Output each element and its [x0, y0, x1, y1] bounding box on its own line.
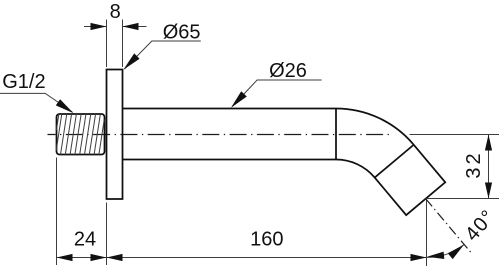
dimension 8 arrow left: [91, 23, 107, 30]
centerline solid extension right (32-dim top reference): [410, 134, 500, 136]
thread G1/2 body: [57, 114, 105, 155]
svg-text:Ø26: Ø26: [269, 60, 307, 82]
leader arrow Ø65: [124, 53, 140, 69]
dimension 8 extension lines: [107, 20, 123, 68]
dimension 160 arrow right: [411, 254, 427, 261]
flange (escutcheon): [107, 70, 123, 200]
angle dimension arrow right: [448, 245, 464, 260]
leader arrow G1/2: [56, 99, 74, 113]
leader arrow Ø26: [231, 91, 247, 108]
svg-text:160: 160: [250, 228, 283, 250]
dimension 160 arrow left: [107, 254, 123, 261]
dimension 32 reference line bottom: [426, 198, 500, 200]
dimension 24 and 160 extension lines: [57, 158, 427, 266]
thread hatching: [56, 114, 104, 155]
leader line Ø26: [232, 80, 321, 106]
dimension 24 arrow right: [91, 254, 107, 261]
dimension line 24 and 160: [57, 257, 427, 259]
outlet axis dash-dot line at 40 degrees: [426, 199, 472, 254]
dimension 32 arrow top: [485, 135, 492, 151]
angle dimension arrow left: [427, 252, 444, 259]
dimension 8 dim line tails: [84, 26, 147, 28]
joint line 1 (bend start): [335, 109, 337, 160]
svg-text:8: 8: [110, 1, 121, 23]
svg-text:32: 32: [463, 150, 485, 178]
svg-text:Ø65: Ø65: [163, 21, 201, 43]
joint line 2 (bend end): [375, 145, 414, 178]
svg-text:40°: 40°: [461, 206, 500, 246]
svg-text:G1/2: G1/2: [2, 71, 45, 93]
dimension 24 arrow left: [57, 254, 73, 261]
dimension 32 dim line: [488, 135, 490, 199]
dimension 32 arrow bottom: [485, 183, 492, 199]
angle dimension arc: [426, 245, 464, 258]
svg-text:24: 24: [74, 228, 96, 250]
leader line Ø65: [125, 41, 201, 69]
centerline main horizontal: [48, 134, 391, 136]
dimension 8 arrow right: [123, 23, 139, 30]
leader line G1/2: [0, 93, 72, 112]
tube outline: [123, 109, 446, 216]
